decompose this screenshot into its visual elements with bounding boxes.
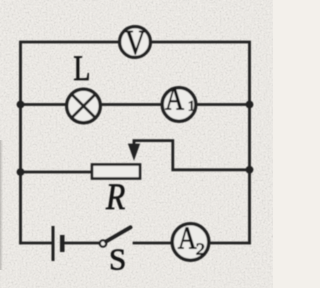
svg-text:V: V <box>125 22 146 61</box>
svg-text:L: L <box>73 47 90 87</box>
svg-text:A: A <box>165 81 184 117</box>
svg-text:S: S <box>109 242 126 277</box>
svg-text:2: 2 <box>196 239 205 258</box>
svg-text:R: R <box>105 177 125 218</box>
svg-text:A: A <box>178 221 197 256</box>
svg-text:1: 1 <box>188 98 196 114</box>
